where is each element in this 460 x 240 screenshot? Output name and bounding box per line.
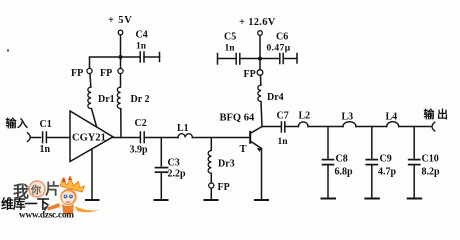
wire +12.6V down to rail (259, 36, 261, 59)
node junction Dr3 tap (210, 138, 212, 151)
node junction C3 tap (160, 138, 162, 167)
node junction C10 tap (413, 127, 415, 159)
watermark mascot (43, 176, 99, 215)
svg-text:BFQ 64: BFQ 64 (220, 113, 255, 124)
capacitor C8 (323, 154, 354, 178)
node junction C8 tap (327, 127, 329, 159)
capacitor C4 (136, 30, 148, 63)
wire FP2 up to rail (120, 57, 122, 68)
capacitor C6 (267, 32, 291, 64)
node FP feedthrough 4 (244, 69, 263, 80)
wire rail right to C4 (121, 56, 140, 58)
node junction +12.6V rail (258, 57, 262, 61)
wire rail left to C5 (240, 58, 260, 60)
svg-text:1n: 1n (278, 137, 289, 147)
ground bar under C3 (155, 199, 168, 201)
svg-text:FP: FP (71, 68, 83, 79)
wire C9 to ground (371, 165, 373, 198)
svg-text:C7: C7 (277, 111, 289, 122)
svg-text:C5: C5 (224, 32, 236, 43)
capacitor C2 (130, 118, 149, 156)
svg-text:www.dzsc.com: www.dzsc.com (19, 211, 74, 220)
svg-text:输出: 输出 (424, 107, 449, 121)
svg-text:C6: C6 (276, 32, 288, 43)
ground bar under C9 (365, 198, 379, 200)
ground bar under Dr3 (205, 199, 218, 201)
svg-text:+ 12.6V: + 12.6V (239, 17, 276, 28)
svg-text:L3: L3 (342, 112, 354, 123)
svg-text:输入: 输入 (6, 116, 29, 130)
svg-text:6.8p: 6.8p (335, 167, 354, 178)
svg-text:C4: C4 (136, 30, 148, 41)
svg-text:T: T (240, 144, 247, 155)
node junction +5V rail (119, 55, 123, 59)
wire C5 to stub (218, 58, 237, 60)
wire amplifier bias lower segment (91, 149, 93, 200)
wire C4 to stub (144, 56, 160, 58)
svg-text:L4: L4 (386, 112, 398, 123)
svg-text:1n: 1n (40, 144, 51, 155)
op-amp U1 CGY21 amplifier triangle (70, 111, 113, 162)
svg-text:FP: FP (218, 182, 230, 193)
wire C1 to amplifier (46, 137, 70, 139)
svg-text:+ 5V: + 5V (108, 15, 133, 26)
terminal stub bar after C4 (159, 53, 161, 62)
watermark 我的IC片 faint text (13, 180, 60, 201)
wire C2 to L1 (144, 137, 178, 139)
svg-text:你: 你 (30, 184, 41, 197)
ground bar under C10 (408, 198, 422, 200)
svg-text:FP: FP (244, 69, 256, 80)
svg-text:L2: L2 (299, 111, 311, 122)
svg-text:FP: FP (100, 68, 112, 79)
wire Dr2 down to output node of amplifier (120, 109, 122, 138)
inductor Dr1 (88, 74, 115, 109)
wire L1 to base (192, 137, 248, 139)
node FP feedthrough 2 (100, 68, 123, 79)
inductor L4 (386, 112, 399, 127)
wire C8 to ground (327, 165, 329, 198)
svg-text:L1: L1 (177, 123, 189, 134)
wire emitter to ground (261, 149, 263, 200)
wire rail right to C6 (260, 58, 280, 60)
svg-text:C1: C1 (40, 119, 52, 130)
wire collector node to C7 (262, 126, 281, 128)
node FP feedthrough 1 (71, 68, 92, 79)
wire +5V down to rail (120, 35, 122, 57)
capacitor C7 (277, 111, 289, 148)
svg-text:8.2p: 8.2p (422, 167, 441, 178)
wire rail left (90, 57, 121, 68)
svg-text:C2: C2 (135, 118, 147, 129)
svg-text:Dr3: Dr3 (218, 159, 235, 170)
wire Dr1 to amplifier top edge (92, 109, 97, 127)
transistor Q1 BFQ64 (220, 113, 263, 156)
svg-text:C3: C3 (168, 158, 180, 169)
wire L2 to L3 (308, 126, 343, 128)
svg-text:Dr 2: Dr 2 (131, 94, 150, 105)
wire FP4 up to rail junction (259, 59, 261, 70)
ground bar under emitter (255, 199, 268, 201)
svg-text:C9: C9 (380, 154, 392, 165)
power +12.6V terminal (258, 31, 263, 36)
svg-text:4.7p: 4.7p (378, 167, 397, 178)
ground bar under C8 (322, 198, 336, 200)
wire FP3 to ground (210, 188, 212, 199)
svg-text:1n: 1n (136, 42, 147, 52)
svg-text:C8: C8 (336, 154, 348, 165)
svg-text:CGY21: CGY21 (72, 133, 106, 144)
wire C6 to stub (283, 58, 297, 60)
capacitor C5 (224, 32, 240, 65)
inductor L1 (177, 123, 192, 138)
node junction C9 tap (371, 127, 373, 159)
node FP feedthrough 3 (209, 174, 230, 194)
power +5V terminal (118, 30, 123, 35)
capacitor C3 (156, 158, 187, 180)
terminal stub bar left of C5 (217, 54, 219, 65)
svg-text:0.47μ: 0.47μ (267, 44, 291, 54)
wire L3 to L4 (356, 126, 387, 128)
svg-text:1n: 1n (225, 44, 236, 54)
wire amplifier output to C2 (113, 137, 140, 139)
svg-text:C10: C10 (422, 154, 439, 165)
inductor L2 (298, 111, 310, 127)
inductor L3 (342, 112, 357, 127)
ground bar under amplifier (86, 199, 99, 201)
stray speck (7, 49, 9, 51)
svg-text:3.9p: 3.9p (130, 145, 149, 156)
wire L4 to output (399, 126, 431, 128)
svg-text:Dr4: Dr4 (267, 92, 284, 103)
wire C10 to ground (413, 165, 415, 198)
svg-text:维库一下: 维库一下 (1, 197, 50, 212)
wire Dr4 to collector node (261, 102, 262, 127)
wire C3 to ground (160, 172, 162, 199)
capacitor C9 (366, 154, 396, 178)
inductor Dr4 (258, 75, 284, 103)
wire input to C1 (32, 137, 41, 139)
svg-text:2.2p: 2.2p (168, 169, 187, 180)
input terminal connector (28, 133, 31, 142)
inductor Dr3 (208, 151, 235, 174)
output terminal connector (432, 122, 435, 131)
svg-text:片: 片 (45, 180, 60, 198)
terminal stub bar right of C6 (296, 54, 298, 64)
inductor Dr2 (117, 74, 149, 109)
wire C7 to L2 (285, 126, 299, 128)
capacitor C1 (40, 119, 52, 155)
svg-text:Dr1: Dr1 (98, 94, 115, 105)
capacitor C10 (409, 154, 440, 178)
